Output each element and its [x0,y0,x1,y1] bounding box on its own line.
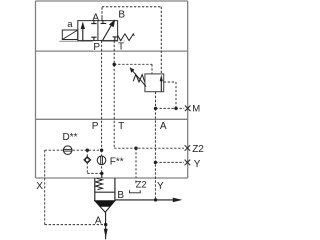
solenoid a box of valve V1 [62,30,78,40]
white box behind P label [93,41,101,51]
valve V1 left square flow arrow [82,28,84,41]
relief valve RV drain line to M [164,82,176,108]
valve V1 left square blocked port bottom [91,37,96,40]
svg-text:X: X [36,181,43,192]
line A from relief valve outlet down through lower section [154,108,156,199]
svg-text:P: P [92,121,99,132]
line junction to cartridge top [101,173,103,178]
relief valve RV flow arrow [160,79,162,92]
pilot line from valve A port up and over to relief valve [102,7,161,74]
pilot line X with corner [45,150,106,224]
relief valve RV outlet line down [155,92,157,109]
junction dot Z2 branch [134,147,137,150]
orifice D [63,146,72,155]
pilot line P from valve down to junction [101,41,103,150]
mounting line under valve V1 [59,40,125,42]
relief valve RV body [145,74,164,92]
line Z2 from T corner to port [114,147,184,149]
bracket under Z2 label [130,190,141,193]
svg-text:A: A [95,216,102,227]
line Y to port [155,161,184,163]
valve V1 left square blocked port top [91,21,96,24]
pilot line T from valve down [113,41,115,148]
svg-text:D**: D** [63,132,78,143]
svg-text:F**: F** [110,157,124,168]
svg-text:Z2: Z2 [192,144,204,155]
line A port of cartridge down with flow arrow [105,212,107,240]
frame divider 1 [36,50,188,52]
pilot branch from T line to relief valve top [114,64,152,74]
orifice F [97,156,106,165]
junction dot M right [174,107,177,110]
line B port of cartridge with flow arrow [115,199,174,201]
valve V1 right square blocked port top [101,21,107,24]
cartridge valve spring [96,178,103,189]
junction dot T pilot [113,63,116,66]
svg-text:M: M [192,103,200,114]
check valve (diamond with ball) [84,157,91,164]
svg-text:T: T [118,121,124,132]
check valve branch line [87,150,102,173]
measuring line M [156,107,185,109]
junction dot A line [104,223,107,226]
junction dot above cartridge [100,172,103,175]
svg-text:Z2: Z2 [136,180,147,191]
svg-text:A: A [160,121,167,132]
svg-text:A: A [92,12,99,23]
valve V1 right square diagonal flow arrow [103,26,112,41]
branch Z2 down to cartridge [135,148,137,178]
port marker X Z2 [185,145,191,151]
frame divider 2 [36,118,188,120]
svg-text:B: B [117,190,124,201]
orifice F line down [101,150,103,173]
junction dot M left [154,107,157,110]
valve V1 body (4/2 directional valve, two squares) [78,21,118,41]
junction dot P line [100,149,103,152]
junction dot D line [86,149,89,152]
cartridge valve poppet [95,201,115,212]
svg-text:T: T [118,41,124,52]
svg-text:Y: Y [194,159,201,170]
frame outer border of control cover block [36,1,188,178]
relief valve RV adjustment arrow [132,71,146,87]
port marker X M [185,106,191,112]
valve V1 right square blocked port bottom [113,37,117,41]
junction dot B line [154,198,157,201]
cartridge valve body [95,178,115,201]
port marker X Y [185,160,191,166]
junction dot Y line [154,161,157,164]
svg-text:P: P [93,42,100,53]
valve V1 return spring [118,34,135,41]
svg-text:B: B [118,9,125,20]
dash of Z2 branch below frame [135,180,137,183]
white box behind T label [118,41,125,50]
relief valve RV spring [133,75,144,83]
svg-text:Y: Y [157,181,164,192]
svg-text:a: a [67,19,73,30]
